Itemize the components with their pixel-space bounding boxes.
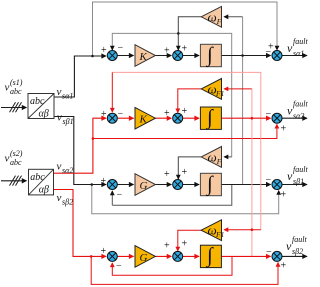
label v_abc^(s2): [5, 149, 23, 167]
wire sumA3 to G: [117, 184, 133, 186]
wire omega_F row3 output to sumB3: [178, 157, 201, 179]
omega_F gain row3: [201, 147, 222, 168]
svg-text:∫: ∫: [205, 105, 214, 130]
omega_F1 gain row4: [201, 220, 224, 241]
omega_F gain row1: [201, 6, 222, 27]
wire v_sbeta1 tap to bottom: [92, 185, 279, 214]
svg-text:∫: ∫: [205, 42, 214, 67]
wire integrator row2 to sumC2: [221, 117, 270, 119]
node tap alpha2: [92, 137, 95, 140]
label v_sbeta1_fault: [287, 165, 308, 186]
wire input block1: [1, 107, 26, 109]
svg-text:abc: abc: [30, 172, 45, 183]
svg-text:−: −: [266, 109, 272, 120]
svg-text:G: G: [140, 252, 148, 264]
svg-text:sβ1: sβ1: [293, 177, 304, 186]
svg-text:−: −: [266, 247, 272, 258]
wire integrator row1 to sumC1: [221, 55, 270, 57]
svg-text:+: +: [101, 45, 107, 56]
wire sumC1 output: [282, 55, 307, 57]
node N1 omega out cross: [177, 32, 180, 35]
wire sumC2 output black: [282, 117, 307, 119]
integrator row4: [200, 243, 221, 268]
summer A2: [107, 113, 117, 123]
node row2 line x251.9: [251, 117, 254, 120]
svg-text:+: +: [101, 109, 107, 120]
wire v_salpha2 tap to sumC2 bottom: [93, 124, 277, 138]
wire row3 feedback to sumA3: [112, 185, 232, 206]
svg-text:∫: ∫: [205, 171, 214, 196]
svg-text:fault: fault: [293, 37, 308, 46]
three-phase slashes block2: [10, 176, 22, 186]
svg-text:sα2: sα2: [62, 166, 73, 175]
svg-text:+: +: [164, 241, 170, 252]
node tap beta1: [91, 183, 94, 186]
abc/alphabeta block 2: [29, 169, 54, 195]
wire sumC3 output: [282, 184, 307, 186]
wire G2 to sumB4: [155, 255, 171, 257]
summer C2: [272, 113, 282, 123]
svg-text:+: +: [164, 46, 170, 57]
wire sumC4 output black: [282, 255, 307, 257]
wire sumA1 to K: [117, 55, 133, 57]
wire integrator row4 to sumC4: [221, 255, 270, 257]
svg-text:−: −: [266, 47, 272, 58]
wire v_salpha1 input path: [54, 56, 106, 97]
omega_F1 gain row2: [201, 79, 224, 100]
wire omega_F1 row4 input: [224, 229, 261, 231]
svg-text:−: −: [116, 261, 122, 272]
svg-text:sβ1: sβ1: [63, 117, 74, 126]
svg-text:+: +: [281, 261, 287, 272]
svg-text:K: K: [139, 114, 148, 126]
wire v_sbeta1 input path: [54, 117, 106, 185]
wire omega_F row3 input: [224, 156, 232, 158]
svg-text:v: v: [57, 161, 62, 173]
summer C4: [272, 251, 282, 261]
svg-text:v: v: [5, 82, 10, 94]
svg-text:fault: fault: [293, 165, 308, 174]
wire K to sumB1: [155, 55, 171, 57]
svg-text:fault: fault: [292, 235, 307, 244]
svg-text:sα2: sα2: [293, 112, 304, 121]
svg-text:(s1): (s1): [10, 78, 23, 87]
svg-text:+: +: [164, 108, 170, 119]
svg-text:ω: ω: [208, 149, 217, 164]
summer A4: [107, 251, 117, 261]
wire vertical row4out to omega_F1 row2: [251, 89, 253, 257]
summer B3: [173, 180, 183, 190]
svg-text:(s2): (s2): [10, 149, 23, 158]
wire sumA2 to K2: [117, 117, 133, 119]
label v_sbeta2_fault: [286, 235, 307, 256]
svg-text:G: G: [140, 180, 148, 192]
wire N1 feedback net row1: [112, 33, 231, 156]
summer A1: [107, 51, 117, 61]
wire sumB2 to integrator row2: [183, 117, 199, 119]
svg-text:αβ: αβ: [39, 109, 49, 120]
gain G row3: [135, 174, 155, 196]
summer B1: [173, 51, 183, 61]
summer A3: [107, 180, 117, 190]
label v_salpha1_fault: [287, 37, 308, 58]
wire omega_F1 row4 output to sumB4: [178, 230, 201, 251]
svg-text:F: F: [216, 157, 222, 166]
svg-text:sβ2: sβ2: [292, 247, 303, 256]
summer C3: [272, 180, 282, 190]
wire sumA4 to G2: [117, 255, 133, 257]
svg-text:abc: abc: [30, 96, 45, 107]
svg-text:∫: ∫: [205, 243, 214, 268]
integrator row2: [200, 105, 221, 130]
svg-text:sα1: sα1: [293, 49, 304, 58]
svg-text:F1: F1: [215, 89, 224, 98]
svg-text:F: F: [216, 17, 222, 26]
svg-text:sα1: sα1: [62, 92, 73, 101]
label v_salpha2: [57, 161, 74, 176]
node tap beta2: [90, 255, 93, 258]
svg-text:sβ2: sβ2: [62, 198, 73, 207]
svg-text:+: +: [101, 246, 107, 257]
label v_salpha2_fault: [287, 100, 308, 121]
svg-text:abc: abc: [10, 158, 22, 167]
wire row4 feedback to sumA4: [112, 256, 232, 275]
svg-text:+: +: [182, 239, 188, 250]
svg-text:ω: ω: [208, 9, 217, 24]
wire input block2: [1, 180, 26, 182]
svg-text:−: −: [118, 109, 124, 120]
svg-text:−: −: [117, 190, 123, 201]
label v_sbeta2: [57, 192, 74, 207]
summer C1: [272, 51, 282, 61]
svg-text:+: +: [101, 176, 107, 187]
gain K row1: [135, 45, 155, 67]
svg-text:−: −: [266, 175, 272, 186]
integrator row1: [200, 42, 221, 67]
label v_salpha1: [57, 86, 74, 101]
wire vertical row3out to omega_F row1: [242, 17, 244, 185]
svg-text:+: +: [281, 190, 287, 201]
svg-text:+: +: [182, 167, 188, 178]
wire v_salpha2 input path: [54, 118, 106, 173]
svg-text:αβ: αβ: [39, 185, 49, 196]
wire omega_F1 row2 output to sumB2: [178, 89, 201, 113]
wire v_salpha1 tap to top: [93, 2, 278, 56]
svg-text:F1: F1: [215, 230, 224, 239]
wire sumB3 to integrator row3: [183, 184, 199, 186]
wire sumB4 to integrator row4: [183, 255, 199, 257]
wire N2 feedback net row2: [112, 72, 260, 229]
wire integrator row3 to sumC3: [221, 184, 270, 186]
svg-text:v: v: [5, 153, 10, 165]
integrator row3: [200, 171, 221, 196]
wire omega_F row1 input: [224, 16, 242, 18]
svg-text:+: +: [182, 44, 188, 55]
gain G row4: [135, 246, 155, 268]
wire omega_F1 row2 input: [224, 88, 252, 90]
node omega row4 input x251.9: [251, 228, 254, 231]
wire v_sbeta2 input path: [54, 190, 106, 257]
svg-text:v: v: [57, 112, 62, 124]
svg-text:v: v: [57, 192, 62, 204]
wire omega_F row1 output to sumB1: [178, 17, 201, 50]
svg-text:abc: abc: [10, 87, 22, 96]
svg-text:+: +: [164, 169, 170, 180]
wire G to sumB3: [155, 184, 171, 186]
wire sumB1 to integrator row1: [183, 55, 199, 57]
label v_abc^(s1): [5, 78, 23, 96]
summer B2: [173, 113, 183, 123]
gain K row2: [135, 107, 155, 129]
svg-text:K: K: [139, 51, 148, 63]
abc/alphabeta block 1: [28, 94, 54, 120]
svg-text:v: v: [57, 86, 62, 98]
wire v_sbeta2 tap to sumC4 bottom: [91, 256, 278, 284]
svg-text:fault: fault: [293, 100, 308, 109]
summer B4: [173, 251, 183, 261]
node row1 line x242.6: [241, 54, 244, 57]
three-phase slashes block1: [10, 102, 22, 112]
node tap alpha1: [91, 55, 94, 58]
svg-text:−: −: [118, 43, 124, 54]
svg-text:+: +: [281, 124, 287, 135]
wire K2 to sumB2: [155, 117, 171, 119]
label v_sbeta1: [57, 112, 74, 127]
svg-text:+: +: [182, 106, 188, 117]
